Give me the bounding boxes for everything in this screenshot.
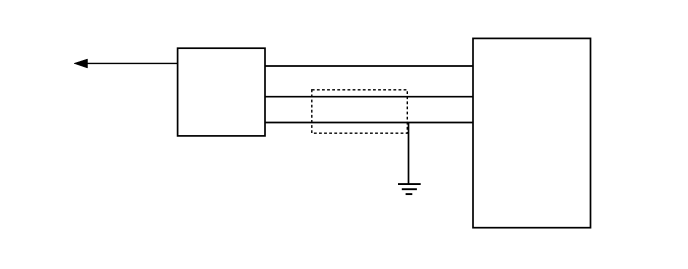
wire 1 (265, 65, 473, 67)
ground wire (408, 123, 410, 185)
dashed region (312, 90, 408, 133)
wire 2 (265, 96, 473, 98)
block (left) (178, 48, 265, 136)
block (right) (473, 38, 591, 227)
ground (398, 184, 421, 194)
wire 3 (265, 122, 473, 124)
wire: output arrow (74, 59, 178, 68)
